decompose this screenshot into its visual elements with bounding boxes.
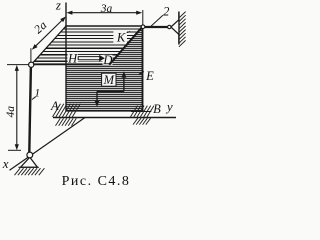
svg-text:D: D	[102, 53, 112, 67]
svg-text:B: B	[153, 102, 161, 116]
svg-text:1: 1	[34, 88, 40, 100]
svg-text:A: A	[50, 99, 59, 113]
svg-text:Рис. С4.8: Рис. С4.8	[62, 174, 131, 189]
svg-text:3a: 3a	[100, 3, 113, 15]
svg-text:z: z	[55, 0, 61, 12]
svg-text:4a: 4a	[5, 106, 17, 118]
svg-text:E: E	[145, 69, 154, 83]
svg-text:x: x	[2, 156, 9, 171]
svg-text:M: M	[103, 73, 115, 87]
svg-text:2: 2	[163, 4, 169, 18]
svg-text:K: K	[116, 30, 126, 44]
svg-text:H: H	[67, 51, 78, 65]
svg-text:y: y	[165, 99, 173, 114]
